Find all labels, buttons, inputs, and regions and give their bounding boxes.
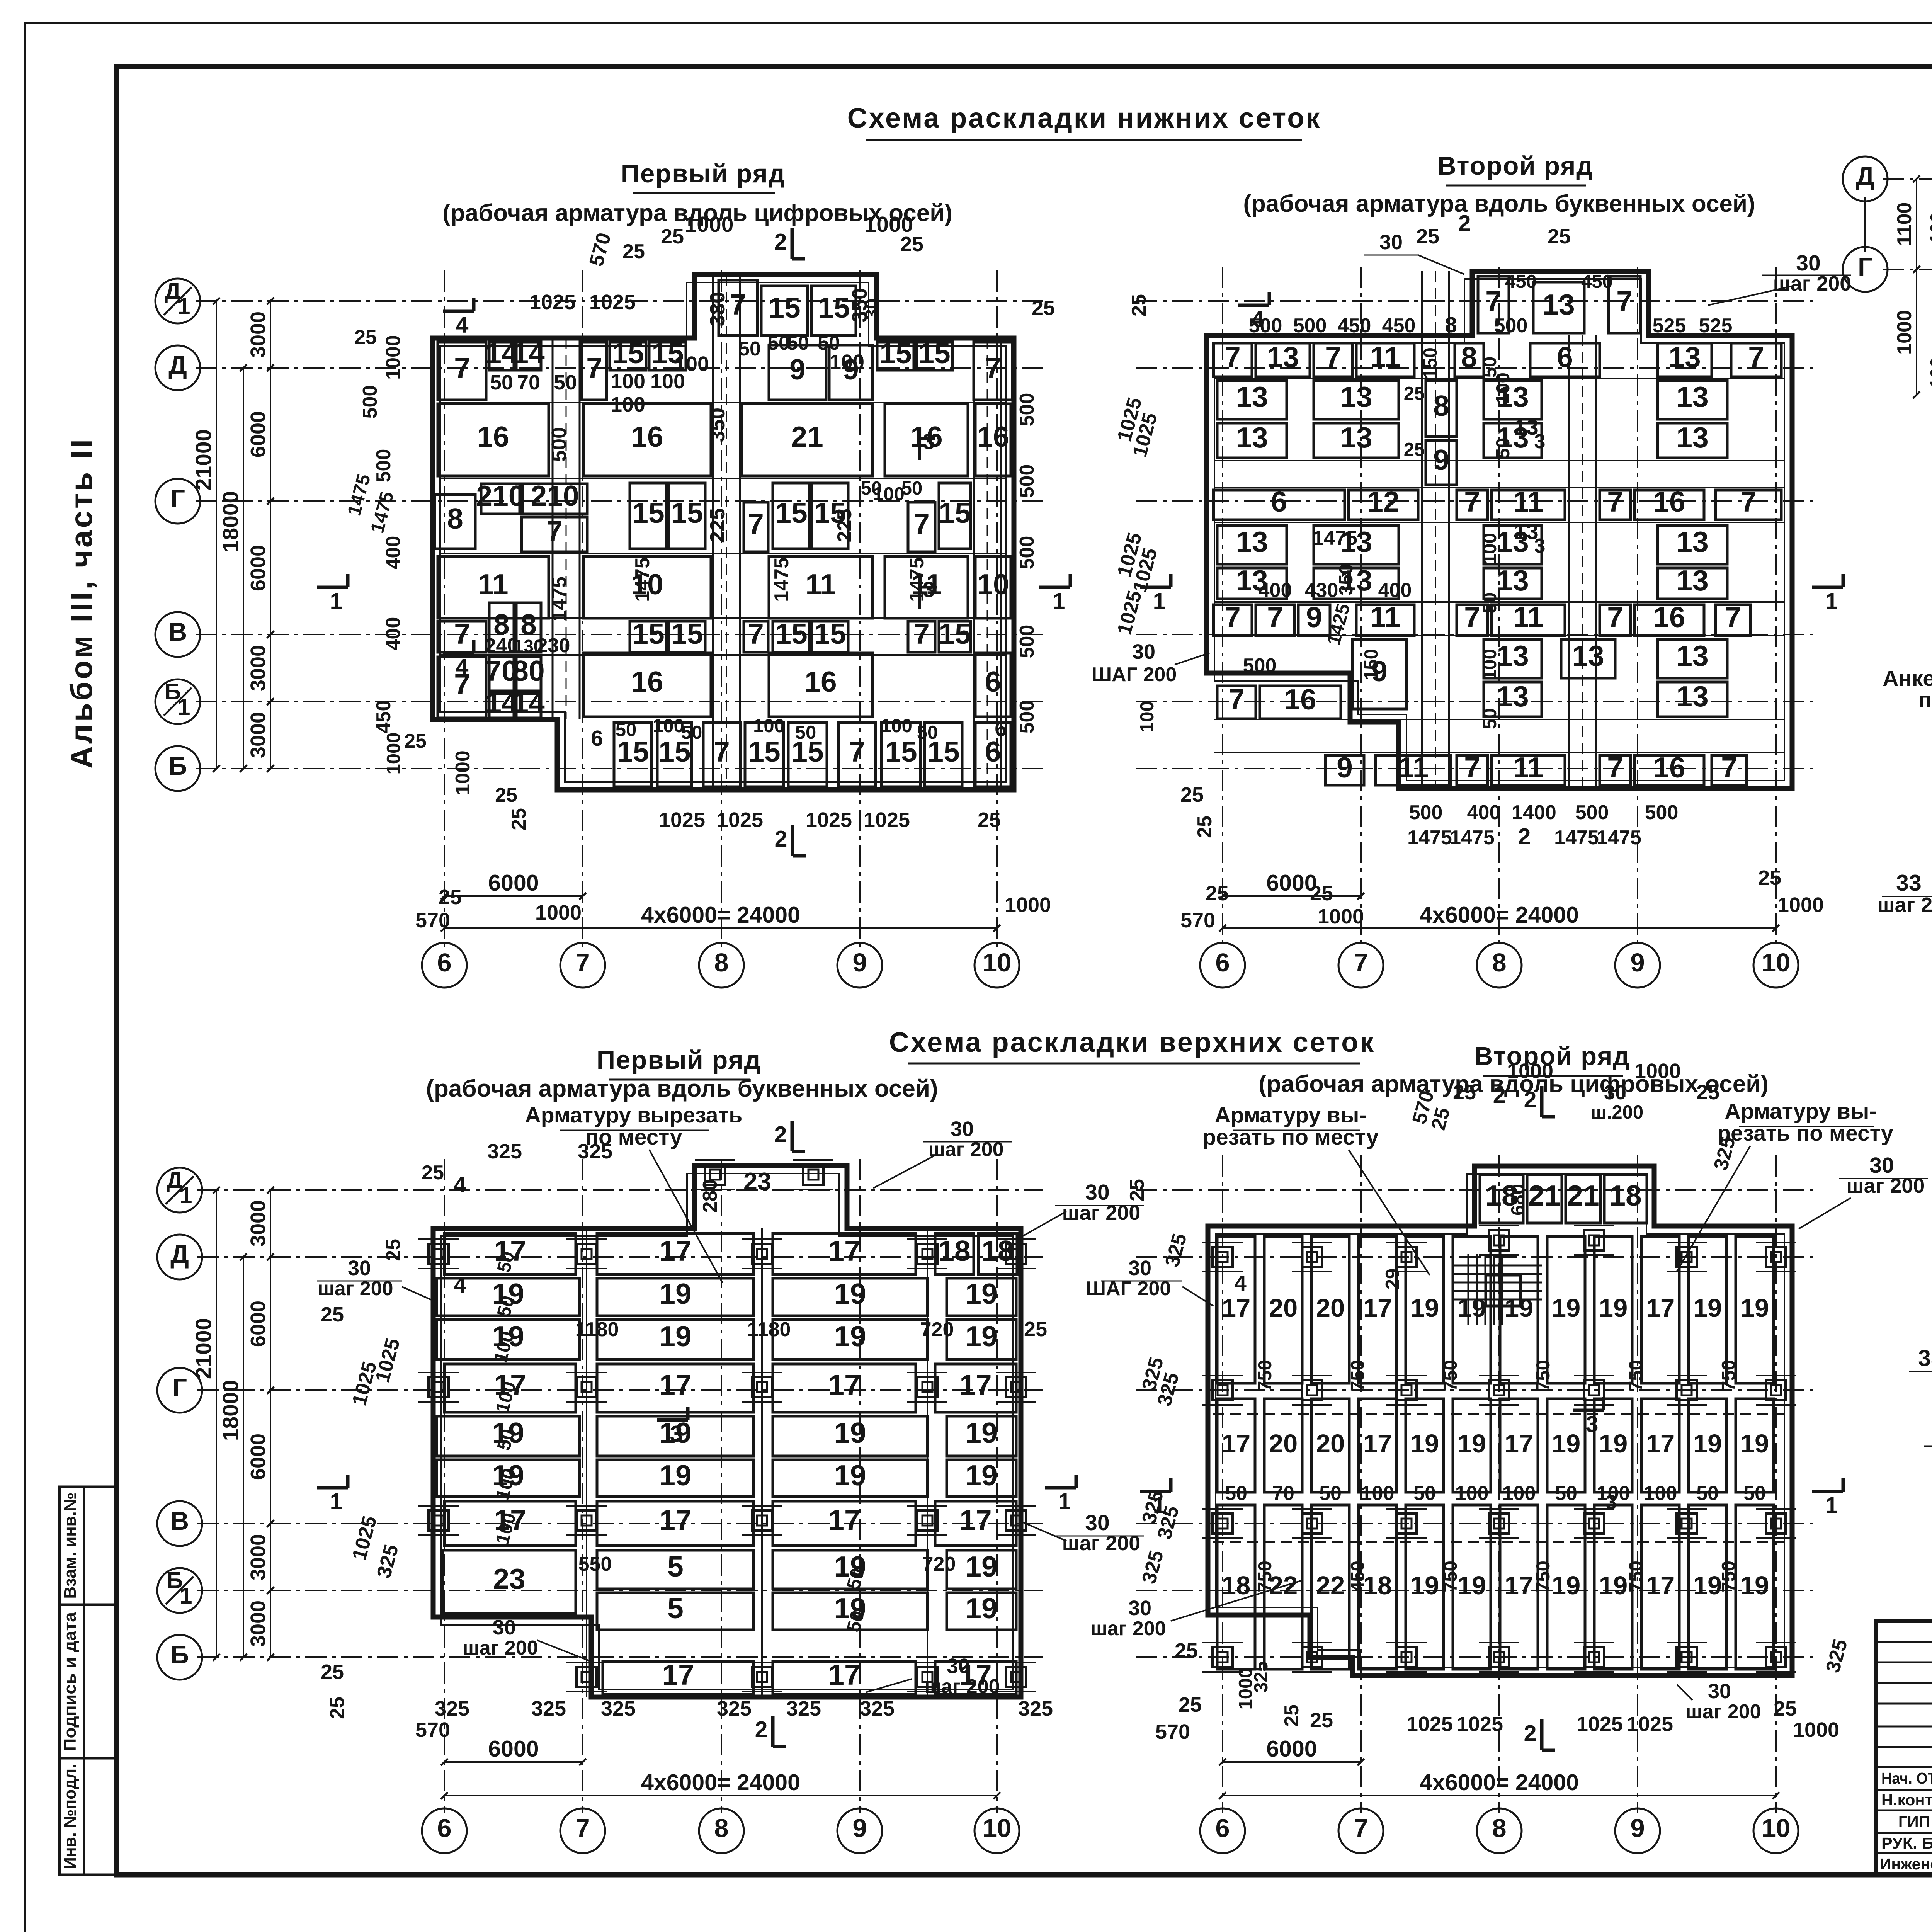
svg-text:30: 30 [951, 1117, 974, 1141]
svg-text:100: 100 [1137, 701, 1158, 733]
svg-text:100: 100 [1927, 212, 1932, 244]
svg-text:19: 19 [1693, 1429, 1722, 1458]
svg-text:1425: 1425 [1323, 601, 1354, 647]
svg-text:750: 750 [1347, 1360, 1368, 1391]
svg-text:50: 50 [681, 722, 702, 743]
svg-text:15: 15 [775, 497, 807, 529]
svg-text:25: 25 [978, 808, 1001, 832]
svg-text:15: 15 [918, 337, 950, 369]
svg-text:1: 1 [330, 1489, 343, 1514]
svg-text:7: 7 [1725, 601, 1741, 633]
svg-text:7: 7 [586, 352, 602, 384]
svg-text:1025: 1025 [717, 808, 763, 832]
svg-text:4х6000= 24000: 4х6000= 24000 [1420, 902, 1579, 928]
svg-text:15: 15 [939, 497, 971, 529]
svg-text:Д: Д [168, 351, 187, 380]
svg-text:Нач. ОТП: Нач. ОТП [1881, 1769, 1932, 1787]
svg-text:50: 50 [616, 719, 637, 740]
svg-text:ШАГ 200: ШАГ 200 [1092, 663, 1177, 686]
svg-text:8: 8 [1445, 313, 1457, 337]
svg-text:3: 3 [1586, 1412, 1599, 1437]
svg-text:17: 17 [659, 1235, 691, 1267]
svg-text:19: 19 [1552, 1294, 1581, 1323]
svg-text:1475: 1475 [548, 577, 571, 621]
svg-text:6000: 6000 [247, 411, 270, 457]
plan D letter axis lines [1136, 1189, 1816, 1191]
svg-text:6: 6 [591, 726, 603, 751]
svg-text:1475: 1475 [631, 557, 654, 602]
svg-text:18000: 18000 [218, 491, 243, 553]
svg-text:2: 2 [1458, 211, 1471, 236]
svg-text:2: 2 [1518, 824, 1531, 849]
svg-text:1: 1 [1825, 1493, 1838, 1518]
svg-text:680: 680 [1508, 1184, 1529, 1216]
plan A numbered axis circles [422, 943, 467, 988]
plan C bottom dimensions [444, 1761, 583, 1763]
svg-text:19: 19 [834, 1417, 866, 1449]
svg-text:450: 450 [1505, 271, 1537, 292]
svg-text:шаг 200: шаг 200 [1685, 1701, 1761, 1723]
svg-text:19: 19 [1410, 1571, 1439, 1600]
svg-text:25: 25 [1194, 816, 1216, 838]
svg-text:8: 8 [714, 1814, 728, 1843]
svg-text:150: 150 [1420, 347, 1441, 379]
svg-text:7: 7 [454, 352, 470, 384]
plan D numbered axis lines [1222, 1155, 1223, 1813]
svg-text:1000: 1000 [685, 212, 734, 237]
svg-text:25: 25 [1696, 1081, 1719, 1104]
plan C numbered axis lines [444, 1159, 445, 1813]
svg-text:Б: Б [170, 1640, 189, 1669]
svg-text:17: 17 [662, 1658, 694, 1691]
svg-text:19: 19 [659, 1459, 691, 1492]
svg-text:750: 750 [1440, 1561, 1461, 1592]
svg-text:19: 19 [834, 1277, 866, 1310]
svg-text:13: 13 [1676, 421, 1708, 454]
plan D crossing mesh detail [1453, 1265, 1542, 1267]
svg-text:1: 1 [1153, 1493, 1166, 1518]
svg-text:33: 33 [1918, 1345, 1932, 1371]
svg-text:Г: Г [170, 484, 185, 513]
svg-text:1000: 1000 [1634, 1060, 1681, 1083]
svg-text:7: 7 [1464, 485, 1480, 518]
svg-text:7: 7 [1616, 285, 1633, 318]
svg-text:19: 19 [965, 1459, 997, 1492]
svg-text:25: 25 [321, 1660, 344, 1684]
margin stamp boxes [60, 1487, 115, 1605]
svg-text:7: 7 [913, 508, 930, 540]
svg-text:570: 570 [1180, 909, 1215, 932]
svg-text:Схема раскладки нижних сето: Схема раскладки нижних сеток [847, 103, 1321, 134]
svg-text:7: 7 [1485, 285, 1502, 318]
svg-text:7: 7 [1228, 683, 1245, 716]
svg-text:1025: 1025 [589, 291, 636, 314]
svg-text:4х6000= 24000: 4х6000= 24000 [641, 902, 800, 928]
svg-text:325: 325 [1251, 1661, 1272, 1693]
svg-text:18000: 18000 [218, 1380, 243, 1441]
svg-text:10: 10 [983, 948, 1012, 977]
svg-text:29: 29 [1382, 1269, 1403, 1290]
svg-text:525: 525 [1699, 315, 1733, 337]
plan A numbered axis lines [444, 270, 445, 947]
plan A bottom dimension lines [444, 895, 583, 897]
svg-text:100: 100 [611, 370, 645, 393]
plan D bottom dimensions [1223, 1761, 1361, 1763]
svg-text:17: 17 [1646, 1571, 1675, 1600]
svg-text:100: 100 [1361, 1482, 1395, 1505]
svg-text:3000: 3000 [247, 645, 270, 691]
svg-text:Арматуру вы-: Арматуру вы- [1215, 1103, 1367, 1128]
svg-text:13: 13 [1340, 421, 1372, 454]
plan C lane boundary lines [586, 1228, 587, 1697]
svg-text:17: 17 [828, 1369, 860, 1401]
svg-text:1025: 1025 [1577, 1713, 1623, 1736]
plan D dashed letter band lines [1213, 1413, 1789, 1415]
svg-text:19: 19 [1552, 1429, 1581, 1458]
svg-text:11: 11 [1370, 341, 1400, 373]
svg-text:50: 50 [738, 338, 761, 360]
svg-text:7: 7 [714, 735, 730, 768]
svg-text:16: 16 [977, 420, 1009, 453]
svg-text:17: 17 [1363, 1429, 1392, 1458]
svg-text:25: 25 [1453, 1081, 1476, 1104]
svg-text:1000: 1000 [1893, 310, 1916, 355]
svg-text:15: 15 [632, 617, 664, 650]
svg-text:25: 25 [1548, 225, 1571, 248]
svg-text:25: 25 [404, 730, 427, 752]
svg-text:15: 15 [775, 617, 807, 650]
svg-text:25: 25 [382, 1239, 405, 1261]
svg-text:25: 25 [422, 1162, 444, 1184]
svg-text:7: 7 [1607, 751, 1623, 784]
svg-text:10: 10 [977, 568, 1009, 600]
svg-text:750: 750 [1718, 1561, 1739, 1592]
svg-text:25: 25 [1126, 1179, 1148, 1201]
svg-text:шаг 200: шаг 200 [463, 1637, 538, 1659]
svg-text:350: 350 [706, 408, 729, 442]
svg-text:325: 325 [601, 1697, 636, 1720]
svg-text:1475: 1475 [1407, 827, 1452, 849]
svg-text:5: 5 [667, 1550, 684, 1583]
svg-text:25: 25 [1281, 1704, 1303, 1727]
svg-text:19: 19 [1505, 1294, 1534, 1323]
svg-text:325: 325 [786, 1697, 821, 1720]
svg-text:3000: 3000 [247, 1200, 270, 1247]
svg-text:1025: 1025 [1627, 1713, 1673, 1736]
svg-text:21000: 21000 [191, 429, 216, 491]
svg-text:шаг 200: шаг 200 [1847, 1174, 1925, 1197]
svg-text:9: 9 [789, 353, 806, 386]
svg-text:13: 13 [1676, 381, 1708, 413]
svg-text:1025: 1025 [659, 808, 705, 832]
svg-text:1: 1 [330, 588, 343, 614]
svg-text:500: 500 [372, 449, 395, 483]
svg-text:9: 9 [1306, 601, 1322, 633]
svg-text:750: 750 [1533, 1561, 1554, 1592]
svg-text:В: В [168, 617, 187, 646]
svg-text:30: 30 [1708, 1680, 1731, 1703]
svg-text:750: 750 [1626, 1360, 1646, 1391]
svg-text:325: 325 [372, 1542, 403, 1580]
svg-text:15: 15 [748, 735, 780, 768]
svg-text:1025: 1025 [1113, 588, 1146, 637]
svg-text:19: 19 [1410, 1294, 1439, 1323]
svg-text:1000: 1000 [1777, 893, 1824, 917]
svg-text:4: 4 [454, 1273, 466, 1298]
svg-text:9: 9 [852, 948, 867, 977]
svg-text:10: 10 [983, 1814, 1012, 1843]
svg-text:16: 16 [477, 420, 509, 453]
svg-text:570: 570 [1155, 1720, 1190, 1743]
svg-text:21: 21 [1528, 1179, 1560, 1212]
svg-text:шаг 200: шаг 200 [1062, 1532, 1141, 1555]
svg-text:15: 15 [671, 497, 703, 529]
svg-text:325: 325 [435, 1697, 469, 1720]
svg-text:750: 750 [1718, 1360, 1739, 1391]
svg-text:1475: 1475 [1313, 527, 1357, 549]
svg-text:13: 13 [1676, 639, 1708, 672]
svg-text:7: 7 [849, 735, 865, 768]
svg-text:19: 19 [659, 1320, 691, 1352]
svg-text:16: 16 [1284, 683, 1316, 716]
svg-text:11: 11 [1513, 485, 1543, 518]
svg-text:6000: 6000 [247, 545, 270, 591]
svg-text:19: 19 [965, 1277, 997, 1310]
plan A plate outline [432, 275, 1014, 790]
svg-text:19: 19 [1599, 1571, 1628, 1600]
svg-text:570: 570 [415, 909, 450, 932]
svg-text:50: 50 [490, 371, 513, 394]
svg-text:325: 325 [1018, 1697, 1053, 1720]
svg-text:1400: 1400 [1512, 801, 1556, 824]
svg-text:325: 325 [487, 1140, 522, 1163]
svg-text:100: 100 [653, 716, 684, 736]
svg-text:3: 3 [923, 429, 935, 454]
svg-text:13: 13 [1543, 288, 1575, 321]
svg-text:25: 25 [1774, 1697, 1797, 1720]
svg-text:19: 19 [965, 1417, 997, 1449]
svg-text:1475: 1475 [344, 472, 374, 518]
svg-text:6000: 6000 [488, 1736, 539, 1762]
svg-text:2: 2 [774, 229, 787, 255]
svg-text:1180: 1180 [747, 1318, 791, 1341]
svg-text:11: 11 [805, 568, 836, 600]
svg-text:15: 15 [671, 617, 703, 650]
svg-text:14: 14 [512, 686, 545, 719]
svg-text:19: 19 [965, 1592, 997, 1624]
svg-text:50: 50 [1480, 592, 1500, 614]
svg-text:100: 100 [881, 716, 912, 736]
svg-text:500: 500 [1016, 464, 1038, 498]
svg-text:325: 325 [1161, 1231, 1191, 1269]
svg-text:50: 50 [795, 722, 816, 743]
svg-text:2: 2 [1524, 1087, 1537, 1112]
svg-text:1: 1 [1058, 1489, 1071, 1514]
svg-text:9: 9 [1433, 444, 1449, 476]
svg-text:500: 500 [1016, 536, 1038, 570]
svg-text:450: 450 [1338, 315, 1371, 337]
svg-text:Арматуру вырезать: Арматуру вырезать [525, 1103, 743, 1128]
svg-text:150: 150 [1361, 649, 1382, 680]
svg-text:16: 16 [1653, 601, 1685, 633]
svg-text:325: 325 [531, 1697, 566, 1720]
svg-text:4: 4 [454, 1172, 466, 1197]
svg-text:325: 325 [578, 1140, 612, 1163]
plan D plate outline [1208, 1166, 1792, 1675]
svg-text:15: 15 [612, 337, 644, 369]
svg-text:100: 100 [1493, 372, 1514, 404]
svg-text:7: 7 [913, 617, 930, 650]
svg-text:30: 30 [1604, 1082, 1626, 1104]
svg-text:33: 33 [1896, 870, 1922, 896]
svg-text:Взам. инв.№: Взам. инв.№ [61, 1493, 80, 1599]
svg-text:20: 20 [1269, 1429, 1298, 1458]
svg-text:750: 750 [1626, 1561, 1646, 1592]
svg-text:по месту: по месту [1918, 687, 1932, 712]
svg-text:25: 25 [1310, 882, 1333, 905]
svg-text:1: 1 [178, 694, 190, 720]
svg-text:18: 18 [1609, 1179, 1641, 1212]
svg-text:1180: 1180 [575, 1318, 619, 1341]
plan B plate outline [1207, 271, 1792, 788]
svg-text:7: 7 [748, 508, 764, 540]
svg-text:25: 25 [622, 240, 645, 263]
svg-text:13: 13 [1236, 421, 1268, 454]
svg-text:1: 1 [1053, 588, 1065, 614]
svg-text:400: 400 [1259, 579, 1292, 602]
svg-text:500: 500 [1293, 315, 1327, 337]
svg-text:1000: 1000 [452, 750, 474, 795]
svg-text:1475: 1475 [1554, 827, 1599, 849]
plan A band lines [440, 402, 1006, 403]
svg-text:500: 500 [1016, 625, 1038, 658]
svg-text:17: 17 [828, 1504, 860, 1536]
svg-text:17: 17 [828, 1235, 860, 1267]
svg-text:500: 500 [1494, 315, 1528, 337]
svg-text:3: 3 [923, 577, 935, 602]
svg-text:11: 11 [1370, 601, 1400, 633]
svg-text:7: 7 [1740, 485, 1757, 518]
svg-text:4х6000= 24000: 4х6000= 24000 [1420, 1770, 1579, 1795]
svg-text:280: 280 [699, 1179, 721, 1213]
plan C left dimensions [270, 1190, 271, 1257]
plan C anchor symbols [429, 1244, 449, 1264]
svg-text:1100: 1100 [1893, 202, 1916, 246]
svg-text:6: 6 [1215, 948, 1230, 977]
svg-text:100: 100 [674, 352, 709, 376]
svg-text:50: 50 [1319, 1482, 1342, 1505]
svg-text:7: 7 [730, 288, 746, 321]
svg-text:15: 15 [814, 617, 846, 650]
plan C numbered axis circles [422, 1808, 467, 1853]
svg-text:100: 100 [1644, 1482, 1677, 1505]
svg-text:450: 450 [1581, 271, 1613, 292]
svg-text:6: 6 [437, 1814, 451, 1843]
svg-text:1475: 1475 [1450, 827, 1495, 849]
svg-text:17: 17 [1222, 1429, 1251, 1458]
svg-text:9: 9 [1630, 948, 1645, 977]
svg-text:19: 19 [1693, 1294, 1722, 1323]
svg-text:2: 2 [1493, 1083, 1506, 1108]
svg-text:5: 5 [667, 1592, 684, 1624]
svg-text:9: 9 [852, 1814, 867, 1843]
svg-text:230: 230 [537, 634, 570, 657]
main title block [1876, 1621, 1932, 1875]
svg-text:ГИП: ГИП [1898, 1813, 1930, 1830]
svg-text:Первый ряд: Первый ряд [597, 1046, 761, 1075]
svg-text:50: 50 [787, 332, 809, 354]
svg-text:70: 70 [517, 371, 540, 394]
svg-text:80: 80 [512, 655, 544, 687]
plan B letter axis lines [1136, 300, 1816, 302]
svg-text:25: 25 [354, 326, 377, 349]
plan D anchor symbols [1213, 1247, 1233, 1267]
svg-text:100: 100 [1480, 649, 1500, 680]
svg-text:10: 10 [1762, 948, 1791, 977]
svg-text:18: 18 [1222, 1571, 1251, 1600]
svg-text:22: 22 [1316, 1571, 1345, 1600]
svg-text:30: 30 [493, 1616, 516, 1639]
plan C letter axis circles [157, 1168, 202, 1213]
svg-text:50: 50 [818, 332, 840, 354]
plan A mesh boxes [719, 280, 757, 335]
svg-text:7: 7 [1354, 1814, 1368, 1843]
svg-text:750: 750 [1255, 1561, 1276, 1592]
svg-text:1025: 1025 [806, 808, 852, 832]
svg-text:19: 19 [1740, 1571, 1769, 1600]
plan B bottom dimensions [1223, 895, 1361, 897]
svg-text:30: 30 [1379, 231, 1403, 254]
svg-text:7: 7 [748, 617, 764, 650]
svg-text:100: 100 [611, 393, 645, 416]
svg-text:7: 7 [1748, 341, 1764, 373]
plan D vertical mesh lanes [1217, 1236, 1255, 1383]
svg-text:19: 19 [1552, 1571, 1581, 1600]
svg-text:325: 325 [1709, 1134, 1740, 1173]
svg-text:23: 23 [493, 1563, 525, 1595]
svg-text:210: 210 [476, 480, 524, 512]
svg-text:13: 13 [1497, 639, 1529, 672]
svg-text:11: 11 [1513, 601, 1543, 633]
svg-text:1025: 1025 [1457, 1713, 1503, 1736]
svg-text:25: 25 [1206, 882, 1229, 905]
svg-text:Второй ряд: Второй ряд [1437, 151, 1594, 180]
svg-text:1000: 1000 [1793, 1718, 1839, 1742]
svg-text:1000: 1000 [382, 335, 405, 380]
plan B band lines [1214, 378, 1784, 379]
fragment 1 dimensions [1916, 179, 1917, 269]
svg-text:50: 50 [1696, 1482, 1719, 1505]
svg-text:500: 500 [359, 385, 381, 419]
svg-text:9: 9 [1337, 751, 1353, 784]
plan B protruding box bottom-left [1214, 680, 1350, 682]
plan B mesh boxes [1478, 276, 1509, 333]
svg-text:1025: 1025 [348, 1514, 381, 1563]
svg-text:4х6000= 24000: 4х6000= 24000 [641, 1770, 800, 1795]
svg-text:шаг 200: шаг 200 [1090, 1617, 1166, 1640]
svg-text:25: 25 [1758, 866, 1781, 889]
svg-text:325: 325 [1138, 1548, 1168, 1586]
svg-text:3: 3 [1606, 1491, 1617, 1514]
svg-text:15: 15 [632, 497, 664, 529]
svg-text:13: 13 [1676, 526, 1708, 558]
svg-text:17: 17 [1646, 1429, 1675, 1458]
svg-text:11: 11 [478, 568, 508, 600]
svg-text:30: 30 [1132, 640, 1155, 663]
svg-text:резать по месту: резать по месту [1202, 1125, 1379, 1150]
svg-text:Альбом III, часть II: Альбом III, часть II [64, 437, 99, 769]
svg-text:резать по месту: резать по месту [1717, 1121, 1893, 1146]
